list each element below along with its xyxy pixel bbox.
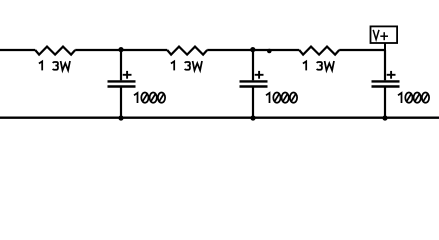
digit 3	[53, 62, 58, 70]
wire bottom rail	[0, 117, 439, 119]
bottom node dot 1	[118, 115, 123, 120]
C3 value label 1000	[398, 93, 429, 104]
wire top rail left segment	[0, 49, 35, 51]
resistor R1	[35, 47, 75, 55]
digit 1	[39, 61, 42, 70]
wire top rail R2 to node 2	[207, 49, 299, 51]
digit 0 slashed	[290, 93, 297, 103]
C2 plus sign	[255, 74, 264, 76]
resistor R2	[167, 47, 207, 55]
C3 bottom plate	[372, 85, 400, 87]
V+ power box	[371, 26, 398, 43]
V+ label	[373, 30, 388, 40]
C1 plus sign	[123, 74, 132, 76]
bottom node dot 3	[382, 115, 387, 120]
wire C2 down to bottom rail	[252, 87, 254, 118]
wire V+ box to node 3	[384, 43, 386, 50]
wire top rail R1 to node 1	[75, 49, 167, 51]
C1 value label 1000	[134, 93, 165, 104]
resistor R3	[299, 47, 339, 55]
letter W	[325, 61, 334, 70]
C2 top plate	[240, 80, 268, 82]
digit 0 slashed	[414, 93, 421, 103]
C3 top plate	[372, 80, 400, 82]
resistor R3 value label 1 3W	[303, 61, 334, 70]
bottom node dot 2	[250, 115, 255, 120]
letter W	[193, 61, 202, 70]
digit 0 slashed	[282, 93, 289, 103]
digit 0 slashed	[405, 93, 412, 103]
wire node 3 down to C3	[384, 50, 386, 80]
digit 1	[398, 93, 402, 103]
capacitor C3	[372, 50, 430, 118]
wire C3 down to bottom rail	[384, 87, 386, 118]
letter W	[61, 61, 70, 70]
digit 0 slashed	[150, 93, 157, 103]
digit 3	[185, 62, 190, 70]
digit 1	[134, 93, 138, 103]
digit 1	[303, 61, 306, 70]
digit 1	[171, 61, 174, 70]
resistor R2 value label 1 3W	[171, 61, 202, 70]
capacitor C1	[108, 50, 166, 118]
digit 1	[266, 93, 270, 103]
digit 0 slashed	[141, 93, 148, 103]
node 1 junction dot	[118, 47, 123, 52]
C3 plus sign	[387, 74, 396, 76]
digit 0 slashed	[273, 93, 280, 103]
digit 3	[317, 62, 322, 70]
node small dot	[267, 49, 272, 54]
capacitor C2	[240, 50, 298, 118]
wire node 2 down to C2	[252, 50, 254, 80]
resistor R1 value label 1 3W	[39, 61, 70, 70]
C2 bottom plate	[240, 85, 268, 87]
wire node 1 down to C1	[120, 50, 122, 80]
C1 bottom plate	[108, 85, 136, 87]
wire top rail R3 to node 3	[339, 49, 385, 51]
wire C1 down to bottom rail	[120, 87, 122, 118]
digit 0 slashed	[158, 93, 165, 103]
C1 top plate	[108, 80, 136, 82]
C2 value label 1000	[266, 93, 297, 104]
node 2 junction dot	[250, 47, 255, 52]
digit 0 slashed	[422, 93, 429, 103]
